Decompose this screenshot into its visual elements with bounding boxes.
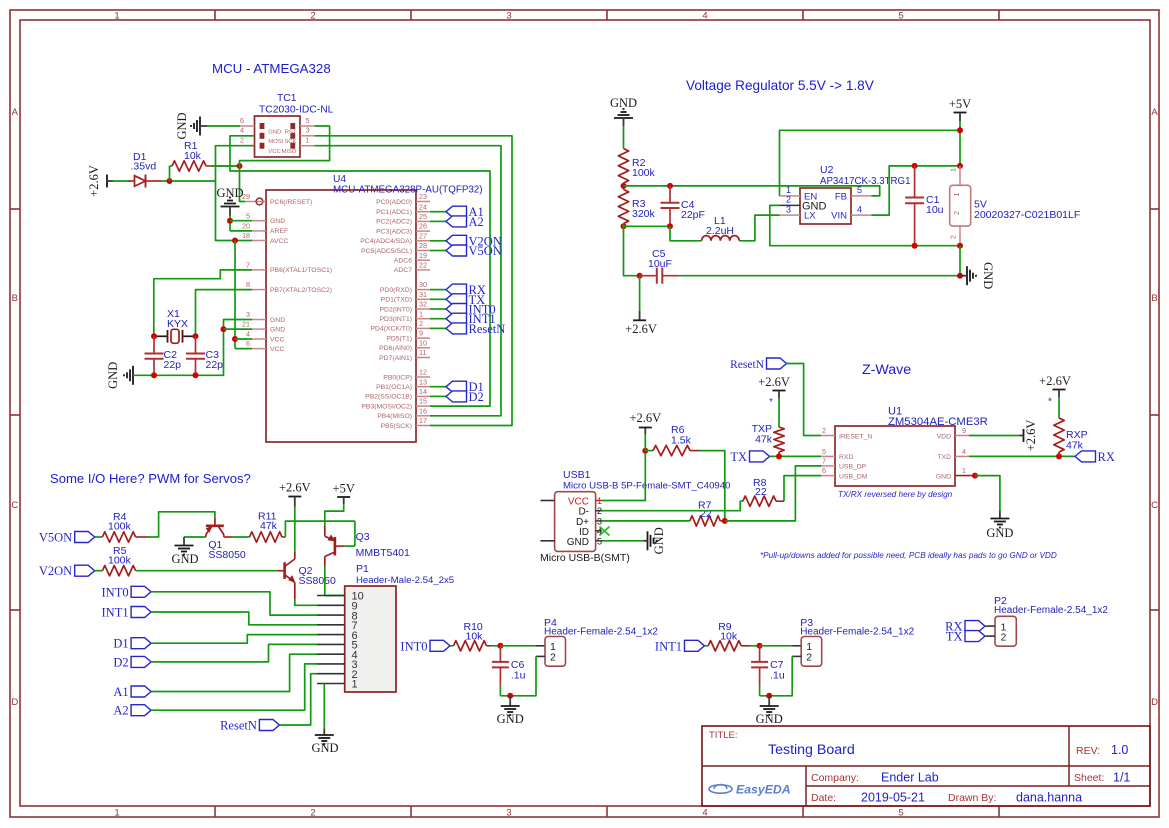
svg-text:9: 9	[419, 329, 423, 338]
capacitor C4	[669, 186, 671, 203]
transistor Q2 SS8050	[283, 562, 286, 579]
wire AVCC rail down to VCC pins	[234, 241, 236, 349]
svg-text:1/1: 1/1	[1113, 771, 1130, 785]
svg-text:4: 4	[962, 447, 966, 456]
wire D+ node to USB_DP	[725, 466, 821, 521]
wire TXD to RX	[969, 455, 1075, 457]
svg-text:*: *	[769, 397, 773, 408]
net flag A1 left	[131, 686, 151, 697]
svg-text:1: 1	[786, 185, 791, 195]
wire TC1 pin4 MOSI to MCU PB3	[230, 136, 490, 406]
svg-text:PC6(/RESET): PC6(/RESET)	[270, 199, 312, 206]
diode D1	[135, 176, 146, 187]
svg-text:10k: 10k	[466, 631, 484, 643]
power flag +2.6V (left of D1)	[106, 175, 108, 188]
svg-text:GND: GND	[567, 537, 589, 548]
USB1 ID pin no-connect X	[600, 527, 610, 536]
svg-text:GND: GND	[981, 262, 995, 289]
svg-text:4: 4	[702, 808, 707, 819]
net flag INT0 left	[131, 586, 151, 597]
svg-text:18: 18	[242, 231, 250, 240]
svg-text:MCU - ATMEGA328: MCU - ATMEGA328	[212, 61, 331, 76]
svg-text:RST: RST	[285, 129, 297, 135]
svg-text:1: 1	[306, 136, 310, 145]
resistor R8 22	[743, 496, 776, 506]
svg-text:GND: GND	[268, 129, 281, 135]
wire MCU PB7 to crystal	[196, 290, 253, 337]
svg-text:Header-Female-2.54_1x2: Header-Female-2.54_1x2	[994, 605, 1108, 616]
wire ResetN to IRESET_N	[787, 364, 822, 436]
power flag GND below P4	[509, 696, 511, 706]
wire VDD to +2.6V	[969, 435, 1020, 437]
svg-text:TX: TX	[730, 450, 747, 464]
wire R5 to Q2 base	[136, 570, 277, 572]
svg-text:INT1: INT1	[102, 606, 129, 620]
svg-text:PD1(TXD): PD1(TXD)	[381, 297, 412, 304]
power flag GND below Q1	[183, 537, 185, 545]
wire USB GND to flag	[602, 540, 643, 542]
resistor TXP 47k	[774, 427, 784, 452]
svg-text:RX: RX	[1098, 450, 1115, 464]
junction ground P4	[507, 693, 513, 699]
svg-text:Header-Female-2.54_1x2: Header-Female-2.54_1x2	[544, 627, 658, 638]
svg-text:2: 2	[1001, 632, 1007, 644]
connector TC1 box	[255, 116, 301, 157]
connector P2 box	[995, 616, 1016, 646]
svg-text:19: 19	[419, 251, 427, 260]
svg-text:100k: 100k	[632, 167, 656, 179]
wire U2 GND pin to ground rail	[770, 205, 960, 245]
resistor R11 47k	[250, 532, 283, 542]
svg-text:PC3(ADC3): PC3(ADC3)	[376, 228, 412, 235]
svg-text:10: 10	[419, 338, 427, 347]
svg-text:+2.6V: +2.6V	[758, 375, 790, 389]
svg-text:SCK: SCK	[284, 139, 296, 145]
svg-text:GND: GND	[936, 473, 951, 480]
svg-text:28: 28	[419, 241, 427, 250]
svg-text:ResetN: ResetN	[730, 359, 765, 371]
svg-text:MISO: MISO	[281, 149, 296, 155]
wire to connector P4 pin1	[500, 645, 536, 647]
svg-text:27: 27	[419, 231, 427, 240]
svg-text:2: 2	[949, 235, 958, 239]
TC1 pin stubs left	[240, 125, 255, 127]
svg-text:P1: P1	[356, 563, 369, 575]
svg-text:PD4(XCK/T0): PD4(XCK/T0)	[370, 326, 412, 333]
svg-text:6: 6	[246, 339, 250, 348]
power flag GND below P3	[768, 696, 770, 706]
svg-text:Testing Board: Testing Board	[768, 742, 855, 758]
wire P4 pin2 down to ground rail	[536, 655, 545, 657]
svg-text:GND: GND	[270, 218, 285, 225]
svg-text:V5ON: V5ON	[469, 244, 502, 258]
junction VCC/R6	[642, 448, 648, 454]
svg-text:A: A	[12, 107, 19, 118]
svg-text:B: B	[1151, 293, 1157, 304]
svg-text:10k: 10k	[720, 631, 738, 643]
svg-text:PD5(T1): PD5(T1)	[386, 335, 412, 342]
capacitor C2	[153, 336, 155, 353]
resistor R6 1.5k	[645, 450, 653, 452]
power flag GND below P1	[315, 734, 334, 736]
svg-text:B: B	[12, 293, 18, 304]
resistor R3	[618, 190, 628, 224]
wire R3 bottom down to C5 rail	[624, 226, 640, 275]
wire TC1 pin2 VCC down to AVCC rail	[216, 146, 255, 241]
svg-text:IRESET_N: IRESET_N	[839, 433, 872, 440]
svg-text:3: 3	[506, 10, 511, 21]
svg-text:PD2(INT0): PD2(INT0)	[380, 306, 412, 313]
svg-text:INT0: INT0	[400, 639, 427, 653]
svg-text:D1: D1	[113, 637, 128, 651]
frame column ticks	[214, 10, 216, 20]
svg-text:2.2uH: 2.2uH	[706, 225, 734, 237]
svg-text:PD7(AIN1): PD7(AIN1)	[379, 355, 412, 362]
svg-text:INT1: INT1	[655, 639, 682, 653]
svg-text:20020327-C021B01LF: 20020327-C021B01LF	[974, 209, 1080, 221]
svg-text:TX/RX reversed here by design: TX/RX reversed here by design	[838, 490, 953, 499]
svg-text:KYX: KYX	[167, 318, 188, 330]
svg-text:+2.6V: +2.6V	[87, 165, 101, 197]
svg-text:PD6(AIN0): PD6(AIN0)	[379, 345, 412, 352]
svg-text:GND: GND	[106, 362, 120, 389]
wire GND to TC1 pin 6	[207, 125, 240, 127]
svg-text:VCC: VCC	[270, 346, 284, 353]
svg-text:+2.6V: +2.6V	[629, 411, 661, 425]
capacitor C5	[640, 275, 656, 277]
svg-text:25: 25	[419, 212, 427, 221]
svg-text:ZM5304AE-CME3R: ZM5304AE-CME3R	[888, 416, 988, 428]
U4 left pin stubs, numbers and names	[257, 201, 267, 203]
svg-text:D2: D2	[469, 390, 484, 404]
svg-text:4: 4	[246, 330, 250, 339]
svg-text:2: 2	[952, 211, 961, 215]
wire D1 cathode to junction	[161, 180, 216, 182]
svg-text:5: 5	[857, 185, 862, 195]
wire Q3 base loop to R11 line	[335, 545, 345, 547]
svg-text:*: *	[1048, 397, 1052, 408]
svg-text:TC2030-IDC-NL: TC2030-IDC-NL	[259, 105, 334, 116]
svg-text:V5ON: V5ON	[39, 531, 72, 545]
junction R10/cap	[497, 643, 503, 649]
svg-text:20: 20	[242, 222, 250, 231]
svg-text:100k: 100k	[108, 555, 132, 567]
P2 pin stubs	[986, 625, 995, 627]
wire MCU PB6 to crystal	[154, 270, 252, 336]
wire TC1 pin1 MISO to MCU PB4	[315, 146, 502, 416]
svg-text:2019-05-21: 2019-05-21	[861, 791, 925, 805]
svg-text:U4: U4	[333, 174, 346, 185]
svg-text:4: 4	[702, 10, 707, 21]
svg-text:7: 7	[822, 457, 826, 466]
svg-text:Header-Female-2.54_1x2: Header-Female-2.54_1x2	[800, 627, 914, 638]
svg-text:A: A	[1151, 107, 1158, 118]
svg-text:32: 32	[419, 300, 427, 309]
power flag +2.6V at VDD (rotated)	[1023, 429, 1025, 442]
svg-text:GND: GND	[986, 526, 1013, 540]
junction ground P3	[766, 693, 772, 699]
net flag V2ON	[75, 565, 95, 576]
connector USB1 box	[555, 492, 596, 552]
svg-text:GND: GND	[756, 712, 783, 726]
svg-text:2: 2	[550, 652, 556, 664]
wire P1 pin1 to GND	[323, 684, 325, 729]
wire R2 to R3	[623, 183, 625, 190]
wire P3 pin2 down to ground rail	[792, 655, 801, 657]
transistor Q1 SS8050	[214, 518, 216, 525]
wire EN up to +5V rail	[780, 130, 961, 196]
junction RESET net	[237, 163, 243, 169]
svg-text:+2.6V: +2.6V	[1024, 420, 1038, 452]
USB1 pin stubs	[596, 500, 602, 502]
wire RESET junction down to pin 29	[240, 166, 246, 202]
svg-text:3: 3	[506, 808, 511, 819]
svg-text:U2: U2	[820, 164, 834, 176]
svg-text:10uF: 10uF	[648, 258, 672, 270]
svg-text:+5V: +5V	[333, 482, 355, 496]
junction TXP/TX	[776, 453, 782, 459]
junction R9/cap	[757, 643, 763, 649]
svg-text:MCU-ATMEGA328P-AU(TQFP32): MCU-ATMEGA328P-AU(TQFP32)	[333, 185, 483, 196]
svg-text:5: 5	[898, 808, 903, 819]
svg-text:A2: A2	[469, 215, 484, 229]
svg-text:Some I/O Here? PWM for Servos?: Some I/O Here? PWM for Servos?	[50, 471, 251, 486]
svg-text:Q3: Q3	[356, 531, 370, 543]
junction RXP/RX	[1056, 453, 1062, 459]
svg-text:USB_DM: USB_DM	[839, 473, 868, 480]
svg-text:1.0: 1.0	[1111, 743, 1128, 757]
svg-text:2: 2	[419, 319, 423, 328]
svg-text:47k: 47k	[260, 520, 278, 532]
wire junction up to R1 left	[169, 166, 171, 181]
svg-text:8: 8	[246, 280, 250, 289]
svg-text:Voltage Regulator 5.5V -> 1.8V: Voltage Regulator 5.5V -> 1.8V	[686, 78, 874, 93]
net flag INT1	[685, 640, 705, 651]
crystal X1	[154, 335, 167, 337]
svg-text:5: 5	[246, 211, 250, 220]
wire VIN up to +5V node	[872, 166, 961, 215]
capacitor C1	[912, 163, 918, 169]
svg-text:Company:: Company:	[811, 772, 859, 784]
U2 pin stubs	[780, 195, 801, 197]
svg-text:16: 16	[419, 406, 427, 415]
svg-text:17: 17	[419, 416, 427, 425]
svg-text:15: 15	[419, 397, 427, 406]
capacitor C3	[195, 336, 197, 353]
svg-text:USB1: USB1	[563, 469, 591, 481]
resistor R4 100k	[95, 536, 103, 538]
wire R6 to D+ node	[700, 451, 725, 521]
svg-text:C: C	[1151, 500, 1158, 511]
frame row ticks	[10, 208, 20, 210]
svg-text:PD3(INT1): PD3(INT1)	[380, 316, 412, 323]
ground rail C5 to connector	[679, 275, 960, 277]
P1 pin stubs and numbers	[317, 595, 345, 597]
svg-text:EasyEDA: EasyEDA	[736, 783, 791, 797]
svg-text:31: 31	[419, 290, 427, 299]
svg-text:D2: D2	[113, 655, 128, 669]
svg-text:23: 23	[419, 192, 427, 201]
svg-text:47k: 47k	[1066, 440, 1084, 452]
svg-text:Micro USB-B 5P-Female-SMT_C409: Micro USB-B 5P-Female-SMT_C40940	[563, 481, 730, 492]
svg-text:4: 4	[857, 204, 862, 214]
svg-text:13: 13	[419, 377, 427, 386]
svg-text:5: 5	[822, 447, 826, 456]
svg-text:SS8050: SS8050	[208, 549, 246, 561]
svg-text:GND: GND	[270, 326, 285, 333]
power flag +2.6V below C5	[639, 276, 641, 311]
svg-text:10u: 10u	[926, 204, 944, 216]
wire connector pin2 to ground rail	[957, 243, 963, 249]
net flag RX at P2	[965, 621, 985, 632]
svg-text:+2.6V: +2.6V	[1039, 374, 1071, 388]
svg-text:.35vd: .35vd	[131, 161, 157, 173]
svg-text:22: 22	[700, 508, 712, 520]
svg-text:4: 4	[240, 126, 244, 135]
junction AVCC rail	[232, 238, 238, 244]
svg-text:Ender Lab: Ender Lab	[881, 771, 939, 785]
resistor R2	[618, 149, 628, 184]
svg-text:PB4(MISO): PB4(MISO)	[377, 413, 412, 420]
svg-text:A2: A2	[113, 704, 128, 718]
svg-text:RXD: RXD	[839, 454, 853, 461]
svg-text:+5V: +5V	[949, 97, 971, 111]
connector 5V pin stubs	[959, 166, 961, 185]
net flag ResetN to U1	[767, 358, 787, 369]
svg-text:GND: GND	[311, 741, 338, 755]
svg-text:PB2(SS/OC1B): PB2(SS/OC1B)	[365, 394, 412, 401]
inductor L1	[702, 236, 740, 241]
svg-text:PC2(ADC2): PC2(ADC2)	[376, 219, 412, 226]
IC U2 box	[800, 188, 851, 224]
svg-text:21: 21	[242, 320, 250, 329]
svg-text:A1: A1	[113, 685, 128, 699]
net flag INT0	[430, 640, 450, 651]
svg-text:SS8050: SS8050	[299, 575, 337, 587]
TC1 pads	[260, 123, 265, 129]
svg-text:GND: GND	[652, 527, 666, 554]
title block table	[702, 726, 1150, 806]
wire to connector P3 pin1	[760, 645, 793, 647]
svg-text:TC1: TC1	[277, 93, 297, 104]
svg-text:47k: 47k	[755, 434, 773, 446]
net flag ResetN bottom	[259, 720, 279, 731]
feedback wire divider to FB	[624, 186, 880, 196]
connector P4 box	[545, 637, 566, 667]
junction crystal right	[193, 333, 199, 339]
wire R11 to Q3 base line	[285, 521, 355, 537]
svg-text:PC4(ADC4/SDA): PC4(ADC4/SDA)	[360, 238, 412, 245]
wire TX to RXD	[770, 455, 822, 457]
svg-text:1: 1	[114, 10, 119, 21]
svg-text:VIN: VIN	[831, 211, 847, 222]
wire RESET junction up to TC1 pin5 route	[240, 126, 330, 166]
U4 right pin stubs, numbers and names	[416, 201, 430, 203]
svg-text:7: 7	[246, 261, 250, 270]
net flag RX	[1075, 451, 1096, 462]
junction at D1 output	[167, 178, 173, 184]
wire A2 to P1 pin3	[151, 664, 317, 710]
net flag V5ON	[75, 532, 95, 543]
svg-text:PB6(XTAL1/TOSC1): PB6(XTAL1/TOSC1)	[270, 267, 332, 274]
svg-text:GND: GND	[175, 112, 189, 139]
svg-text:Drawn By:: Drawn By:	[948, 792, 996, 804]
U1 pin stubs and numbers	[821, 435, 835, 437]
svg-text:V2ON: V2ON	[39, 564, 72, 578]
svg-text:USB_DP: USB_DP	[839, 464, 867, 471]
svg-text:+2.6V: +2.6V	[279, 481, 311, 495]
wire Q3 collector to P1 pin10	[325, 566, 345, 596]
svg-text:+2.6V: +2.6V	[625, 322, 657, 336]
wire INT1 to P1 pin7	[151, 612, 317, 625]
svg-text:PB5(SCK): PB5(SCK)	[381, 423, 412, 430]
svg-text:22: 22	[755, 486, 767, 498]
capacitor below R9	[759, 646, 761, 662]
svg-text:TX: TX	[946, 630, 963, 644]
svg-text:C: C	[11, 500, 18, 511]
wire USB D+ to R7	[602, 520, 690, 522]
wire Q1 emitter to GND	[184, 536, 206, 538]
svg-text:3: 3	[786, 204, 791, 214]
wire +5V to Q3 emitter	[325, 504, 344, 526]
svg-text:.1u: .1u	[770, 670, 785, 682]
svg-text:12: 12	[419, 368, 427, 377]
transistor Q3 MMBT5401	[334, 537, 337, 556]
svg-text:GND: GND	[171, 552, 198, 566]
svg-text:3: 3	[306, 126, 310, 135]
resistor R7 22	[690, 516, 721, 526]
resistor R10 10k	[450, 645, 454, 647]
svg-text:REV:: REV:	[1076, 745, 1100, 757]
svg-text:AREF: AREF	[270, 228, 288, 235]
svg-text:AVCC: AVCC	[270, 238, 288, 245]
wire USB VCC up to R6	[602, 451, 645, 501]
pin 29 inversion bubble	[256, 198, 263, 205]
svg-text:Z-Wave: Z-Wave	[862, 362, 911, 378]
svg-text:2: 2	[240, 136, 244, 145]
connector P1 box	[345, 586, 396, 692]
svg-text:*Pull-up/downs added for possi: *Pull-up/downs added for possible need, …	[760, 551, 1057, 560]
svg-text:PB0(ICP): PB0(ICP)	[383, 374, 412, 381]
svg-text:.1u: .1u	[511, 670, 526, 682]
connector 5V box	[950, 185, 971, 226]
IC U1 box	[835, 426, 955, 486]
net flag TX	[750, 451, 770, 462]
svg-text:26: 26	[419, 222, 427, 231]
svg-text:11: 11	[419, 348, 426, 357]
svg-text:PB1(OC1A): PB1(OC1A)	[376, 384, 412, 391]
TC1 pin stubs right	[300, 125, 315, 127]
wire USB D- to R8	[602, 501, 743, 511]
wire +2.6V to D1	[113, 180, 130, 182]
EasyEDA logo	[709, 785, 732, 794]
svg-text:D: D	[11, 697, 18, 708]
wire GND flag to MCU pin5 and pin20	[229, 216, 231, 231]
net flag D2 left	[131, 656, 151, 667]
svg-text:GND: GND	[497, 712, 524, 726]
svg-text:10k: 10k	[184, 150, 202, 162]
wire R3 bottom to C4 bottom	[624, 225, 671, 227]
junction C5 left	[637, 273, 643, 279]
svg-text:Header-Male-2.54_2x5: Header-Male-2.54_2x5	[356, 575, 454, 586]
svg-text:VCC: VCC	[268, 149, 281, 155]
resistor R5 100k	[95, 570, 103, 572]
svg-text:22pF: 22pF	[681, 209, 705, 221]
wire ResetN to P1 pin2	[279, 674, 317, 725]
svg-text:MMBT5401: MMBT5401	[356, 547, 410, 559]
svg-text:24: 24	[419, 202, 427, 211]
svg-text:PC5(ADC5/SCL): PC5(ADC5/SCL)	[361, 248, 412, 255]
